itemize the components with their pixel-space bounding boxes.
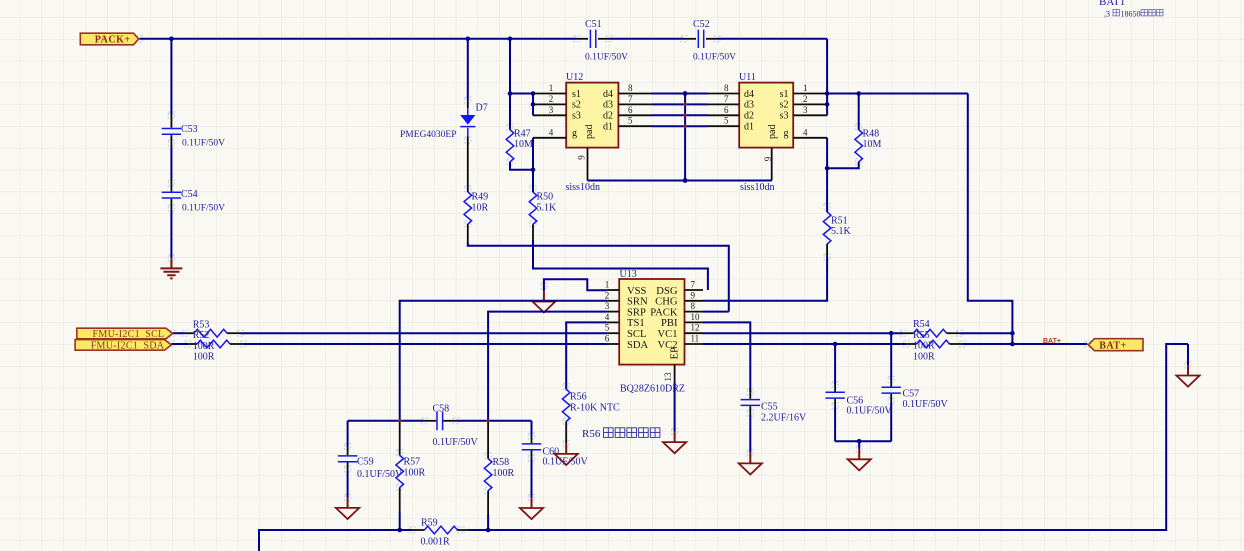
svg-text:C59: C59 [357, 457, 374, 468]
svg-text:2: 2 [605, 290, 610, 300]
U11 pin numbers left [724, 83, 729, 126]
svg-text:10M: 10M [863, 139, 882, 150]
svg-text:CHG: CHG [655, 297, 678, 308]
junction VC1 tap [1010, 331, 1015, 336]
U11 pin 8 [708, 93, 740, 95]
svg-text:d1: d1 [603, 122, 613, 133]
svg-text:R50: R50 [537, 192, 554, 203]
ground arrow U13 EP [663, 432, 686, 454]
U13 pin 11 [685, 343, 704, 345]
U13 pin 2 [607, 300, 619, 302]
svg-text:100R: 100R [913, 341, 935, 352]
U13 pin 3 [607, 311, 619, 313]
svg-text:s2: s2 [572, 100, 581, 111]
port PACK+ [80, 33, 138, 45]
wire s-node to R48 and right branch [827, 93, 968, 95]
U13 pin 7 [685, 289, 704, 291]
ground arrow VSS [533, 291, 556, 312]
wire top rail between C51 and C52 [609, 38, 684, 40]
resistor R54 100R [903, 329, 959, 337]
wire d-lines row3 [652, 114, 708, 116]
svg-text:100R: 100R [193, 341, 215, 352]
svg-text:R55: R55 [913, 330, 930, 341]
svg-text:R52: R52 [193, 330, 210, 341]
wire U12 gate pin down [532, 138, 534, 170]
svg-text:0.1UF/50V: 0.1UF/50V [903, 399, 949, 410]
capacitor C53 [162, 114, 225, 149]
wire top rail corner down to U11 s1 [826, 39, 828, 94]
svg-text:g: g [572, 128, 577, 139]
U13 pin 8 [685, 311, 704, 313]
svg-text:EP: EP [670, 347, 681, 359]
resistor R53 100R [185, 329, 241, 337]
U12 pin numbers left [549, 83, 554, 137]
svg-text:SCL: SCL [627, 329, 646, 340]
wire R56 to gnd [565, 421, 567, 443]
svg-text:R58: R58 [493, 457, 510, 468]
wire d-lines U12 to U11 row1 [652, 93, 708, 95]
wire R47 branch down [509, 39, 511, 94]
ground arrow R56 [555, 444, 578, 465]
R54 R55 labels [913, 319, 935, 362]
wire DSG to R50 rail done above ; wire CHG handled ; wire PACK pin right [703, 311, 729, 313]
U12 pin 2 [533, 103, 566, 105]
U13 pin 5 [607, 332, 619, 334]
op U11 siss10dn body [739, 72, 793, 148]
wire junction to U12 s1 pin [510, 93, 533, 95]
svg-text:d4: d4 [744, 89, 754, 100]
wire C55 to gnd [749, 415, 751, 453]
svg-text:R49: R49 [472, 192, 489, 203]
wire tying U12 s1 s2 s3 [532, 94, 534, 116]
svg-text:100R: 100R [193, 352, 215, 363]
U12 pin 8 [618, 93, 652, 95]
svg-text:s3: s3 [572, 111, 581, 122]
junction VC2 tap [1010, 342, 1015, 347]
svg-text:0.1UF/50V: 0.1UF/50V [585, 53, 628, 63]
wire C54 to earth ground [170, 211, 172, 258]
svg-text:0.1UF/50V: 0.1UF/50V [182, 204, 225, 214]
U11 pad pin 9 [763, 148, 773, 181]
svg-text:3: 3 [549, 105, 554, 115]
wire R52 to SDA pin [244, 343, 608, 345]
wire R55 to BAT+ port [963, 343, 1088, 345]
svg-text:s3: s3 [780, 111, 789, 122]
note text R56 thermistor [582, 428, 660, 440]
wire TS1 pin to R56 [566, 322, 607, 389]
junction SRN R57 [398, 419, 402, 423]
U12 pin 1 [533, 93, 566, 95]
U13 pin 12 [685, 332, 704, 334]
junction gate node U12 [531, 168, 536, 173]
svg-text:5.1K: 5.1K [537, 202, 558, 213]
svg-text:1: 1 [549, 83, 554, 93]
svg-text:3: 3 [605, 301, 610, 311]
svg-text:U13: U13 [620, 269, 637, 280]
svg-text:R59: R59 [421, 518, 438, 529]
junction top rail at C53 branch [169, 37, 174, 42]
svg-text:R51: R51 [831, 216, 848, 227]
wire PBI pin right and down [703, 322, 750, 392]
svg-text:100R: 100R [913, 351, 935, 362]
svg-text:siss10dn: siss10dn [566, 182, 600, 193]
wire top rail from PACK+ to C51 [139, 38, 577, 40]
svg-text:D7: D7 [476, 103, 488, 114]
U13 pin numbers right [691, 280, 701, 344]
junction d row2 [683, 102, 687, 106]
svg-text:7: 7 [628, 94, 633, 104]
svg-text:6: 6 [605, 334, 610, 344]
junction R47 top / s-pins [508, 91, 513, 96]
svg-text:4: 4 [803, 127, 808, 137]
svg-text:5.1K: 5.1K [831, 226, 852, 237]
svg-text:d2: d2 [744, 111, 754, 122]
svg-text:s1: s1 [572, 89, 581, 100]
svg-text:BAT+: BAT+ [1099, 340, 1127, 351]
earth ground [160, 258, 182, 278]
junction U11 s2 [825, 102, 830, 107]
resistor R47 10M [506, 94, 533, 162]
svg-text:d2: d2 [603, 111, 613, 122]
svg-text:8: 8 [628, 83, 633, 93]
wire BAT- gnd stem [1187, 344, 1189, 365]
diode D7 PMEG4030EP [400, 100, 488, 140]
svg-text:R-10K NTC: R-10K NTC [570, 403, 620, 414]
svg-text:siss10dn: siss10dn [740, 182, 774, 193]
junction U11 s1 [825, 91, 830, 96]
battery note 3x18650 pack [1104, 10, 1163, 19]
wire battery negative return [469, 344, 1188, 530]
junction C56 tap [833, 342, 838, 347]
svg-text:PBI: PBI [661, 318, 678, 329]
svg-text:BAT+: BAT+ [1043, 338, 1061, 345]
junction R57 bottom [397, 528, 402, 533]
capacitor C55 2.2UF/16V [741, 390, 807, 424]
wire R54 to VC1 tap [960, 332, 1013, 334]
U11 pin 6 [708, 114, 740, 116]
wire R51 to CHG [826, 244, 828, 257]
resistor R55 100R [906, 340, 962, 348]
wire D7 to R49 [467, 136, 469, 192]
junction R58 bottom [486, 528, 491, 533]
svg-text:10R: 10R [472, 202, 489, 213]
ground arrow C59 [336, 498, 359, 520]
wire top rail from C52 to right corner [717, 38, 827, 40]
svg-text:VSS: VSS [627, 286, 647, 297]
svg-text:d3: d3 [744, 100, 754, 111]
svg-text:TS1: TS1 [627, 318, 645, 329]
resistor R56 R-10K NTC [562, 389, 620, 421]
svg-text:8: 8 [691, 301, 696, 311]
capacitor C51 [577, 19, 628, 63]
svg-text:U12: U12 [566, 72, 583, 83]
svg-text:6: 6 [724, 105, 729, 115]
svg-text:C51: C51 [585, 19, 602, 30]
svg-text:100R: 100R [404, 468, 426, 479]
svg-text:0.001R: 0.001R [421, 537, 451, 548]
wire R50 to DSG [532, 224, 534, 240]
junction U12 s1 [531, 91, 536, 96]
wire s-node right branch down to VC taps [968, 94, 1013, 345]
svg-text:4: 4 [605, 312, 610, 322]
svg-text:pad: pad [584, 125, 595, 139]
svg-text:d1: d1 [744, 122, 754, 133]
junction gnd node [857, 439, 862, 444]
svg-text:R56: R56 [570, 392, 587, 403]
resistor R57 100R [396, 422, 426, 530]
svg-text:,3: ,3 [1104, 10, 1110, 19]
wire D7 branch down [467, 39, 469, 100]
port FMU-I2C1_SCL [77, 328, 173, 340]
svg-text:10M: 10M [514, 139, 533, 150]
ground arrow BAT- [1176, 365, 1199, 387]
svg-text:100R: 100R [493, 468, 515, 479]
svg-text:5: 5 [605, 323, 610, 333]
ground arrow C55 [739, 453, 762, 475]
wire SRN pin left and down [400, 301, 607, 421]
svg-text:SRP: SRP [627, 307, 646, 318]
svg-text:2: 2 [803, 94, 808, 104]
junction d row1 [683, 91, 688, 96]
resistor R50 5.1K [529, 170, 557, 224]
svg-text:4: 4 [549, 127, 554, 137]
svg-text:R53: R53 [193, 320, 210, 331]
U12 pin 4 [533, 137, 566, 139]
wire SCL from port through R53 [173, 332, 185, 334]
capacitor C57 0.1UF/50V [882, 333, 949, 441]
capacitor C59 0.1UF/50V [338, 421, 403, 498]
wire pad rail [588, 180, 772, 182]
U13 pin 4 [607, 321, 619, 323]
U13 pin 6 [607, 343, 619, 345]
junction R48 top [856, 91, 861, 96]
svg-text:VC1: VC1 [657, 329, 677, 340]
op-amp U13 BQ28Z610DRZ body [619, 269, 684, 365]
wire tying U11 s1 s2 s3 [826, 94, 828, 116]
wire VSS pin to gnd [544, 279, 607, 291]
svg-text:9: 9 [691, 290, 696, 300]
svg-text:U11: U11 [739, 72, 756, 83]
svg-text:C55: C55 [761, 402, 778, 413]
U12 pin numbers right [628, 83, 633, 126]
svg-text:9: 9 [577, 155, 587, 160]
svg-text:3: 3 [803, 105, 808, 115]
U12 pin 7 [618, 103, 652, 105]
U11 pin 1 [793, 93, 827, 95]
svg-text:12: 12 [691, 323, 700, 333]
R53 R52 labels [193, 320, 215, 363]
svg-text:BAT1: BAT1 [1099, 0, 1125, 8]
svg-text:s1: s1 [780, 89, 789, 100]
svg-text:SDA: SDA [627, 340, 649, 351]
svg-text:FMU-I2C1_SDA: FMU-I2C1_SDA [91, 341, 165, 352]
capacitor C54 [162, 178, 225, 214]
svg-text:10: 10 [691, 312, 701, 322]
wire SDA from port through R52 [171, 343, 188, 345]
svg-text:0.1UF/50V: 0.1UF/50V [182, 139, 225, 149]
capacitor C58 0.1UF/50V [425, 403, 479, 448]
svg-text:1: 1 [605, 280, 610, 290]
port FMU-I2C1_SDA [75, 340, 171, 352]
U13 pad wire to gnd [674, 382, 676, 432]
ground arrow C60 [520, 498, 543, 520]
svg-text:7: 7 [724, 94, 729, 104]
U13 pin 1 [607, 289, 619, 291]
svg-text:0.1UF/50V: 0.1UF/50V [847, 405, 893, 416]
wire VC2 pin right [703, 343, 906, 345]
wire d-lines row4 [652, 125, 708, 127]
svg-text:d3: d3 [603, 100, 613, 111]
U11 pin 5 [708, 125, 740, 127]
wire C56 C57 common to gnd [835, 440, 891, 442]
wire R53 to SCL pin [241, 332, 608, 334]
svg-text:0.1UF/50V: 0.1UF/50V [433, 437, 479, 448]
wire C58 rail left segment [348, 420, 425, 422]
svg-text:DSG: DSG [656, 286, 678, 297]
wire R59 left to corner going down [259, 530, 412, 551]
resistor R59 0.001R [412, 518, 469, 548]
svg-text:R57: R57 [404, 457, 421, 468]
svg-text:5: 5 [724, 116, 729, 126]
wire d-lines row2 [652, 103, 708, 105]
U12 pin 3 [533, 114, 566, 116]
svg-text:0.1UF/50V: 0.1UF/50V [693, 53, 736, 63]
svg-text:11: 11 [691, 334, 700, 344]
svg-text:SRN: SRN [627, 297, 648, 308]
capacitor C52 [684, 19, 736, 63]
wire C58 rail right segment [456, 420, 532, 422]
U11 pin 4 [793, 137, 827, 139]
svg-text:R54: R54 [913, 319, 930, 330]
terminal snap markers [136, 36, 1191, 533]
U12 pin 5 [618, 125, 652, 127]
U11 pin numbers right [803, 83, 808, 137]
U12 pin 6 [618, 114, 652, 116]
svg-text:8: 8 [724, 83, 729, 93]
svg-text:5: 5 [628, 116, 633, 126]
resistor R49 10R [464, 192, 489, 224]
svg-text:2: 2 [549, 94, 554, 104]
svg-text:9: 9 [763, 156, 773, 161]
svg-text:C53: C53 [181, 124, 198, 135]
wire VC1 pin right [703, 332, 903, 334]
U12 pad pin 9 [577, 148, 588, 181]
svg-text:C58: C58 [433, 403, 450, 414]
U13 pad pin 13 [663, 365, 675, 382]
svg-text:0.1UF/50V: 0.1UF/50V [543, 457, 589, 468]
capacitor C60 0.1UF/50V [522, 421, 589, 498]
svg-text:g: g [784, 128, 789, 139]
junction top rail at D7 branch [466, 37, 471, 42]
svg-text:6: 6 [628, 105, 633, 115]
svg-text:PACK+: PACK+ [95, 34, 131, 45]
junction SRP R58 [486, 419, 490, 423]
op U12 siss10dn body [566, 72, 618, 148]
resistor R52 100R [188, 340, 244, 348]
svg-text:PACK: PACK [650, 307, 678, 318]
U11 pin 3 [793, 114, 827, 116]
junction gate node U11 [825, 166, 830, 171]
svg-text:13: 13 [663, 372, 673, 382]
resistor R58 100R [484, 422, 514, 530]
junction d row4 [683, 124, 687, 128]
wire SRP pin left and down [488, 312, 607, 421]
svg-text:FMU-I2C1_SCL: FMU-I2C1_SCL [93, 329, 165, 340]
U11 pin 7 [708, 103, 740, 105]
wire between C53 and C54 [170, 147, 172, 178]
svg-text:18650: 18650 [1121, 10, 1141, 19]
resistor R51 5.1K [823, 168, 851, 244]
wire U11 gate pin down [826, 138, 828, 168]
junction d row3 [683, 113, 687, 117]
svg-text:s2: s2 [780, 100, 789, 111]
U13 pin numbers left [605, 280, 610, 344]
svg-text:R47: R47 [514, 128, 531, 139]
svg-text:d4: d4 [603, 89, 613, 100]
U13 pin 9 [685, 300, 704, 302]
port BAT+ [1088, 339, 1143, 352]
resistor R48 10M [855, 94, 882, 162]
U13 pin 10 [685, 321, 704, 323]
U11 pin 2 [793, 103, 827, 105]
wire R49 to PACK pin rail [467, 224, 469, 242]
capacitor C56 0.1UF/50V [825, 344, 892, 441]
junction C57 tap [889, 331, 894, 336]
svg-text:C52: C52 [693, 19, 710, 30]
wire R48 bottom to U11 gate node [827, 162, 859, 168]
svg-text:7: 7 [691, 280, 696, 290]
svg-text:C54: C54 [181, 189, 198, 200]
wire R47 bottom to gate node [510, 162, 533, 170]
svg-text:R56: R56 [582, 428, 601, 440]
svg-text:2.2UF/16V: 2.2UF/16V [761, 413, 807, 424]
junction U12 s2 [531, 102, 536, 107]
junction top rail at R47 branch [508, 37, 513, 42]
svg-text:pad: pad [767, 125, 778, 139]
svg-text:1: 1 [803, 83, 808, 93]
junction pad rail [683, 178, 688, 183]
svg-text:R48: R48 [863, 128, 880, 139]
wire tying d-lines to pad rail [684, 94, 686, 181]
ground arrow C56 C57 [848, 441, 871, 470]
svg-text:PMEG4030EP: PMEG4030EP [400, 130, 456, 140]
wire C53 branch down [170, 39, 172, 115]
